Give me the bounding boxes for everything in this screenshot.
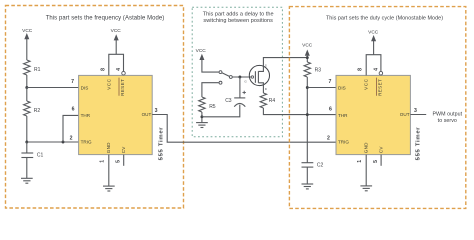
right annotation box (Monostable) — [289, 7, 465, 209]
svg-text:OUT: OUT — [400, 112, 410, 117]
svg-text:8: 8 — [358, 68, 364, 71]
svg-text:5: 5 — [373, 160, 379, 163]
svg-text:VCC: VCC — [368, 29, 379, 35]
switch S1 throw contact (VCC) — [219, 71, 222, 74]
svg-text:3: 3 — [155, 108, 158, 114]
svg-text:C3: C3 — [225, 98, 232, 104]
svg-text:CV: CV — [378, 146, 383, 154]
svg-text:555 Timer: 555 Timer — [416, 127, 422, 161]
svg-text:6: 6 — [329, 107, 332, 113]
transistor Q1 body — [249, 65, 269, 85]
resistor R4 — [260, 93, 275, 108]
wire THR stub to pin 6 — [63, 115, 79, 142]
U2 CV pin 5 stub — [380, 155, 382, 166]
ground (C1) — [21, 178, 33, 183]
U1 RESET active-low bubble — [122, 71, 126, 75]
svg-text:VCC: VCC — [111, 28, 122, 34]
node junction THR tap — [62, 141, 65, 144]
U2 pin label RESET (rotated, active-low) — [376, 78, 382, 96]
node junction R5/C3 — [200, 115, 203, 118]
svg-text:R1: R1 — [34, 67, 41, 73]
capacitor C1 — [21, 142, 43, 178]
svg-text:RESET: RESET — [120, 79, 125, 96]
resistor R5 — [199, 97, 216, 112]
svg-text:C2: C2 — [317, 163, 324, 169]
power VCC node (left rail) — [22, 28, 33, 60]
svg-text:VCC: VCC — [196, 48, 207, 54]
svg-text:DIS: DIS — [81, 85, 89, 90]
svg-text:to servo: to servo — [438, 118, 457, 124]
power VCC arrow above U1 — [111, 28, 122, 54]
svg-text:R3: R3 — [315, 68, 322, 74]
svg-text:VCC: VCC — [302, 43, 313, 49]
switch S1 throw contact (pull-down) — [219, 81, 222, 84]
resistor R3 — [304, 62, 321, 77]
svg-text:VCC: VCC — [22, 28, 33, 34]
svg-text:4: 4 — [116, 68, 122, 71]
svg-text:6: 6 — [72, 107, 75, 113]
svg-text:1: 1 — [357, 160, 363, 163]
svg-text:DIS: DIS — [338, 85, 346, 90]
ground (U1 GND) — [103, 186, 115, 191]
node label PWM output to servo — [432, 112, 462, 125]
node junction R1/R2/DIS — [25, 86, 28, 89]
switch S1 lever — [222, 73, 230, 77]
svg-text:THR: THR — [81, 113, 91, 118]
wire R3 rail down to C2 — [306, 77, 308, 163]
node junction R2/C1/TRIG — [25, 141, 28, 144]
svg-text:R4: R4 — [269, 98, 276, 104]
Q1 channel bar — [257, 71, 259, 83]
wire R1 to node — [26, 75, 28, 88]
svg-text:S: S — [265, 64, 267, 68]
U2 GND pin 1 wire — [365, 155, 367, 186]
power VCC node (R3) — [302, 43, 313, 63]
wire lower throw to R5 — [202, 83, 219, 97]
wire switch pole to gate node — [233, 76, 252, 78]
wire C3 bottom run — [202, 105, 240, 117]
svg-text:5: 5 — [116, 160, 122, 163]
Q1 gate bar — [254, 71, 256, 83]
resistor R2 — [24, 101, 41, 116]
Q1 gate bubble — [251, 76, 253, 78]
ground (U2 GND) — [360, 186, 372, 191]
svg-text:PWM output: PWM output — [432, 112, 462, 118]
svg-text:R2: R2 — [34, 108, 41, 114]
svg-text:TRIG: TRIG — [338, 140, 349, 145]
svg-text:3: 3 — [414, 108, 417, 114]
node junction VCC/R3/Q1-S — [306, 56, 309, 59]
switch S1 pole contact — [229, 76, 232, 79]
ground (C2) — [302, 184, 314, 189]
svg-text:1: 1 — [100, 160, 106, 163]
svg-text:GND: GND — [106, 142, 111, 153]
svg-text:TRIG: TRIG — [81, 140, 92, 145]
wire to U2 DIS pin 7 — [307, 87, 336, 89]
middle annotation box (delay) — [192, 7, 282, 137]
left annotation box (Astable) — [6, 6, 184, 209]
wire R5 to ground node — [201, 112, 203, 122]
svg-text:This part sets the duty cycle: This part sets the duty cycle (Monostabl… — [326, 15, 443, 21]
node junction R3/DIS — [306, 86, 309, 89]
wire to DIS pin 7 — [27, 87, 79, 89]
svg-text:CV: CV — [121, 146, 126, 154]
wire R2 to TRIG node — [26, 116, 28, 142]
ground (R5/C3) — [196, 123, 208, 128]
svg-text:GND: GND — [363, 142, 368, 153]
svg-text:4: 4 — [373, 68, 379, 71]
svg-text:This part adds a delay to the: This part adds a delay to the — [203, 11, 274, 17]
capacitor C2 — [302, 163, 324, 184]
U1 CV pin 5 stub — [123, 155, 125, 166]
U2 RESET active-low bubble — [379, 71, 383, 75]
node junction THR net — [306, 113, 309, 116]
wire U1 OUT to U2 TRIG — [152, 115, 336, 143]
U1 VCC pin 8 wire — [109, 54, 124, 75]
svg-text:switching between positions: switching between positions — [203, 18, 273, 24]
capacitor C3 (polarized) — [225, 77, 246, 107]
svg-text:VCC: VCC — [364, 78, 369, 89]
wire U2 OUT — [410, 114, 426, 116]
svg-text:2: 2 — [327, 135, 330, 141]
U2 VCC pin 8 wire — [366, 55, 381, 76]
U1 pin label RESET (rotated, active-low) — [119, 78, 125, 96]
resistor R1 — [24, 60, 41, 75]
svg-text:THR: THR — [338, 113, 348, 118]
power VCC arrow above U2 — [368, 29, 379, 54]
svg-text:7: 7 — [329, 79, 332, 85]
node junction pole/C3/gate — [238, 76, 241, 79]
svg-text:555 Timer: 555 Timer — [158, 127, 164, 161]
svg-text:8: 8 — [100, 68, 106, 71]
svg-text:C1: C1 — [37, 152, 44, 158]
svg-text:7: 7 — [71, 79, 74, 85]
op-amp 555 timer U2 body — [336, 75, 410, 154]
svg-text:VCC: VCC — [106, 78, 111, 89]
svg-text:R5: R5 — [209, 104, 216, 110]
op-amp 555 timer U1 body — [79, 75, 153, 154]
svg-text:2: 2 — [70, 135, 73, 141]
power VCC node (switch) — [196, 48, 219, 72]
wire node to R2 — [26, 88, 28, 102]
Q1 drain lead — [258, 83, 263, 93]
svg-text:OUT: OUT — [142, 112, 152, 117]
wire to TRIG pin 2 — [27, 141, 79, 143]
wire R4 to THR net — [263, 108, 336, 115]
U1 GND pin 1 wire — [108, 155, 110, 186]
Q1 source lead to VCC node — [258, 58, 307, 72]
svg-text:RESET: RESET — [377, 79, 382, 96]
svg-text:This part sets the frequency (: This part sets the frequency (Astable Mo… — [46, 15, 165, 21]
